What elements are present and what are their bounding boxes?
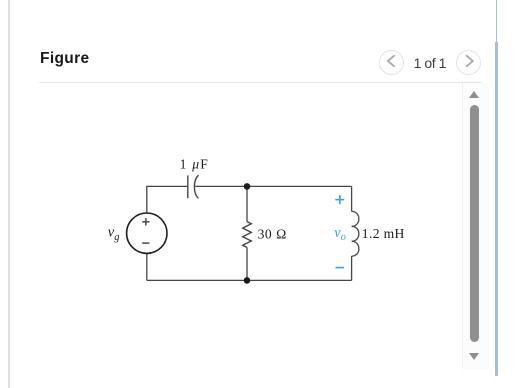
next page button <box>456 50 481 75</box>
scrollbar down arrow <box>469 353 479 360</box>
polarity plus (output, blue) <box>335 195 344 204</box>
scrollbar thumb <box>470 105 479 342</box>
capacitor C1 right curved plate <box>194 175 198 198</box>
page indicator 1 of 1 <box>414 55 446 71</box>
wire: top middle segment (capacitor to top node) <box>195 185 247 187</box>
wire: right vertical upper (corner down to inductor) <box>351 186 353 211</box>
resistor R1 lower lead <box>246 247 248 280</box>
left panel border <box>8 0 10 388</box>
wire: left vertical lower (source bottom to bottom corner) <box>146 253 148 280</box>
svg-text:vo: vo <box>334 225 346 243</box>
voltage source Vg circle <box>127 213 167 253</box>
wire: right vertical lower (inductor to bottom corner) <box>351 256 353 280</box>
scrollbar up arrow <box>469 91 479 98</box>
voltage source Vg minus sign <box>142 242 149 244</box>
wire: top right segment (top node to inductor corner) <box>247 185 352 187</box>
resistor R1 upper lead <box>246 186 248 221</box>
right blue splitter line (main part) <box>495 42 498 376</box>
voltage source Vg plus sign <box>142 218 149 225</box>
inductor L1 coil <box>352 211 359 256</box>
svg-text:1 μF: 1 μF <box>180 157 209 172</box>
header divider <box>39 82 482 83</box>
svg-text:30 Ω: 30 Ω <box>258 226 287 241</box>
junction node: top <box>244 183 251 190</box>
Figure heading <box>40 50 89 68</box>
junction node: bottom <box>244 277 251 284</box>
resistor R1 zigzag <box>243 222 252 248</box>
right blue splitter line (thin top part) <box>496 0 498 42</box>
polarity minus (output, blue) <box>336 267 345 269</box>
prev page button <box>379 50 404 75</box>
capacitor C1 left plate <box>187 175 189 198</box>
wire: bottom segment <box>147 279 352 281</box>
scrollbar gutter <box>462 83 489 369</box>
svg-text:1.2 mH: 1.2 mH <box>362 226 405 241</box>
wire: top-left segment (source top corner to capacitor left plate) <box>147 186 188 213</box>
svg-text:vg: vg <box>108 224 120 242</box>
